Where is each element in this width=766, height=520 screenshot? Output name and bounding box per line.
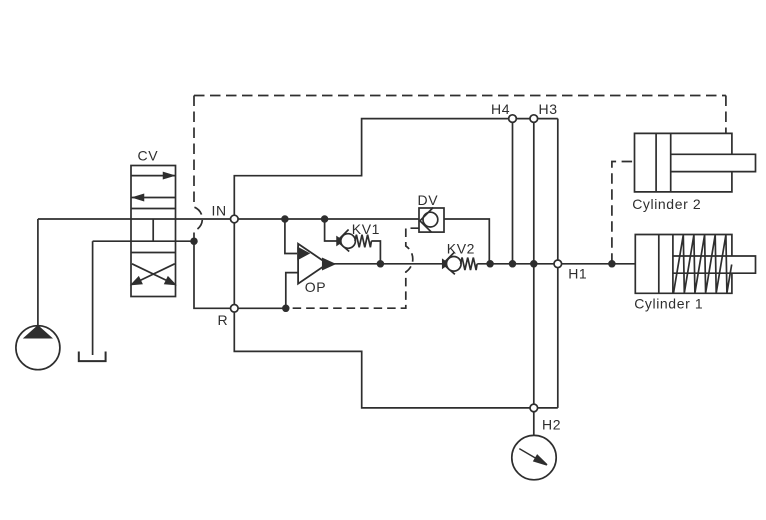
op-amp OP output arrowhead (323, 259, 334, 269)
wire KV1 inlet (325, 219, 338, 241)
pilot line dashed box right edge (725, 96, 727, 134)
wire H3 vertical to H2 (533, 119, 535, 408)
cylinder 1 rod (673, 256, 756, 273)
wire OP upper input (285, 219, 297, 254)
cylinder 2 body (635, 133, 732, 192)
wire tank line T through valve CV (93, 240, 194, 242)
valve CV body (131, 166, 176, 297)
cylinder 1 spring (674, 235, 732, 293)
wire KV2 outlet to Cylinder 1 (477, 263, 635, 265)
op-amp OP triangle (298, 244, 327, 284)
pilot line dashed OP enclosure to valve DV (286, 228, 419, 308)
junction dot KV1 branch (322, 216, 328, 222)
svg-text:H4: H4 (491, 101, 510, 117)
valve DV (419, 208, 444, 233)
svg-text:IN: IN (212, 203, 227, 219)
tank (79, 352, 106, 362)
wire node IN to node R (233, 219, 235, 308)
junction dot DV outlet (487, 261, 493, 267)
svg-text:KV1: KV1 (352, 221, 380, 237)
valve CV crossed arrows (132, 264, 168, 281)
wire junction to node R (194, 241, 234, 308)
cylinder 1 body (635, 235, 732, 294)
valve CV center stub (152, 219, 154, 241)
valve CV arrow left (131, 197, 176, 199)
wire DV outlet (444, 219, 489, 264)
node IN (231, 215, 239, 223)
wire tank drop (92, 241, 94, 355)
wire R to OP drain dot (234, 307, 285, 309)
check valve KV2 (443, 252, 477, 274)
check valve KV1 (337, 230, 371, 252)
svg-text:H2: H2 (542, 416, 561, 432)
svg-text:H1: H1 (568, 266, 587, 282)
junction dot valve drain (191, 238, 197, 244)
pump (16, 326, 60, 370)
pilot line dashed box top (194, 95, 726, 97)
svg-text:H3: H3 (539, 101, 558, 117)
valve CV divider 1 (131, 208, 176, 210)
wire bottom step from R (234, 308, 558, 408)
node H2 (530, 404, 538, 412)
wire pump line P to valve CV and node IN to valve DV (38, 218, 419, 220)
valve CV divider 2 (131, 252, 176, 254)
wire H4 vertical (512, 119, 514, 264)
svg-text:DV: DV (418, 192, 439, 208)
junction dot KV1 outlet (378, 261, 384, 267)
wire KV1 outlet (371, 241, 380, 264)
wire right main vertical through H1 (557, 119, 559, 408)
wire pump riser (37, 219, 39, 326)
junction dot OP lower branch (283, 305, 289, 311)
junction dot H4 (510, 261, 516, 267)
valve CV arrow right (131, 175, 176, 177)
pilot line dashed box left edge with crossing hop (194, 96, 202, 242)
svg-text:R: R (218, 312, 229, 328)
node H4 (509, 115, 517, 123)
junction dot H3 (531, 261, 537, 267)
junction dot OP upper branch (282, 216, 288, 222)
node H1 (554, 260, 562, 268)
wire H2 to gauge (533, 412, 535, 436)
svg-text:Cylinder 1: Cylinder 1 (634, 295, 703, 311)
wire OP lower input (286, 273, 298, 309)
op-amp OP input arrowhead (298, 248, 308, 259)
svg-text:CV: CV (138, 148, 159, 164)
pilot line dashed to Cylinder 2 (612, 162, 635, 264)
svg-text:KV2: KV2 (447, 241, 475, 257)
node H3 (530, 115, 538, 123)
junction dot Cylinder 2 pilot (609, 261, 615, 267)
cylinder 2 piston (656, 133, 671, 192)
svg-text:OP: OP (305, 279, 326, 295)
wire node IN up and over to H line (234, 119, 558, 219)
cylinder 1 piston (659, 235, 673, 294)
node R (231, 305, 239, 313)
cylinder 2 rod (671, 154, 756, 171)
svg-text:Cylinder 2: Cylinder 2 (632, 196, 701, 212)
wire OP output to KV2 (334, 263, 447, 265)
gauge H2 (512, 435, 556, 479)
